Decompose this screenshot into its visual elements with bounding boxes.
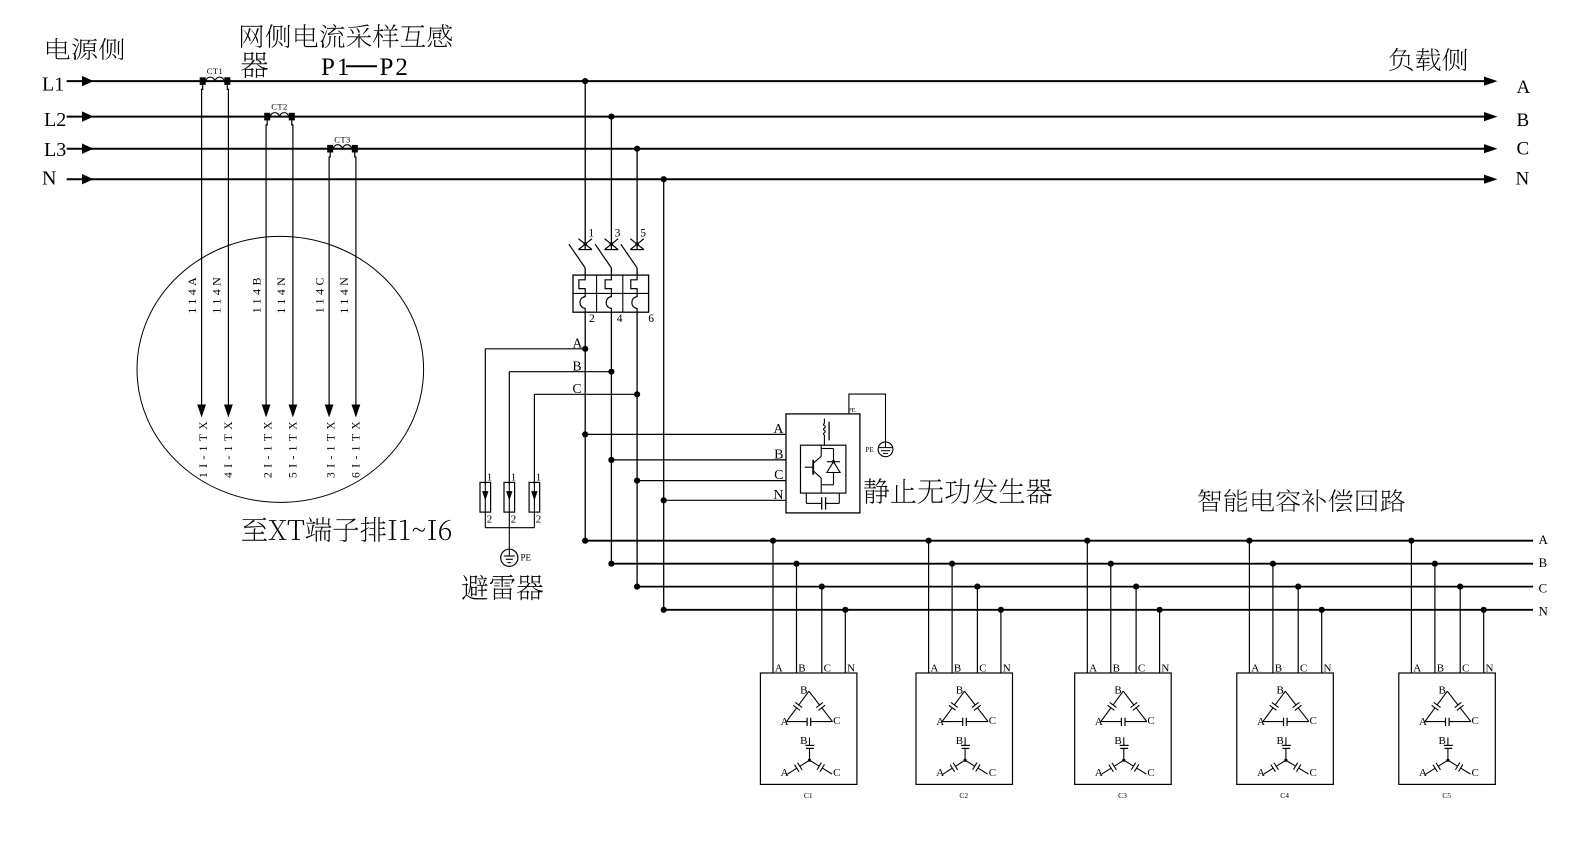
svg-text:B: B [774,448,783,463]
wire C1 B [796,564,798,673]
svg-text:B: B [1539,555,1548,570]
svg-text:C: C [1472,715,1479,727]
junction N on main line [661,176,667,182]
breaker contact 3 [605,239,619,250]
svg-text:B: B [1114,685,1121,697]
svg-text:C: C [1310,767,1317,779]
freewheel diode [833,449,835,462]
svg-text:2: 2 [589,313,595,325]
text: jingzhi wugong fashengqi [864,478,1052,504]
delta capacitors C3 [1101,708,1111,722]
svg-text:C: C [1310,715,1317,727]
junction C1 N [842,607,848,613]
bus B [611,563,1533,565]
svg-text:B: B [800,735,807,747]
magnetic coil pin 4 [606,293,611,312]
junction tap B [608,369,614,375]
thermal element pin 6 [631,275,637,293]
current transformer CT1 [200,77,206,85]
svg-text:A: A [1095,767,1103,779]
wire C1 N [844,610,846,673]
svg-text:C: C [1517,138,1530,159]
wire C3 B [1110,564,1112,673]
junction C5 B [1432,561,1438,567]
svg-text:2: 2 [536,513,542,525]
svg-text:1: 1 [511,471,517,483]
svg-text:C2: C2 [959,791,968,800]
thermal element pin 4 [605,275,611,293]
wire arrester A drop [484,349,486,484]
svg-text:A: A [936,767,944,779]
svg-text:C3: C3 [1118,791,1127,800]
inductor inside SVG [823,419,825,424]
N right arrow [1484,175,1498,184]
wire SVG input N [664,499,786,501]
bus A [585,540,1533,542]
junction tap A [582,346,588,352]
L3 right arrow [1484,144,1498,153]
svg-text:C1: C1 [804,791,813,800]
junction SVG B [608,457,614,463]
svg-text:B: B [956,735,963,747]
wire CT secondary B411 [266,120,267,404]
wire SVG input A [585,433,786,435]
svg-text:PE: PE [521,553,532,563]
svg-text:A: A [781,716,789,728]
junction SVG C [634,478,640,484]
junction C3 B [1108,561,1114,567]
svg-text:N: N [42,168,56,190]
junction C3 C [1133,584,1139,590]
svg-text:L2: L2 [44,109,66,131]
wire CT secondary N411 [355,153,356,405]
node circle: CT secondary bundle [137,236,424,502]
delta capacitors C1 [787,708,797,722]
wire C3 C [1135,587,1137,673]
wire SVG input C [637,480,786,482]
IGBT transistor [812,460,814,475]
svg-text:C: C [1472,767,1479,779]
arrow B411 [262,405,271,418]
svg-text:A: A [1539,532,1549,547]
wire to PE [508,528,510,550]
breaker contact 1 [578,239,592,250]
svg-text:2: 2 [487,513,493,525]
arrester common wire [485,527,534,529]
svg-text:B: B [1277,685,1284,697]
junction pole 3 on main line [608,114,614,120]
bus N [664,609,1533,611]
svg-text:5: 5 [640,228,646,240]
arrester element FC [529,482,540,512]
junction SVG A [582,431,588,437]
thermal element pin 2 [579,275,585,293]
svg-text:6: 6 [648,313,654,325]
wire phase C vertical [636,312,638,586]
junction bus A start [582,538,588,544]
svg-text:N: N [773,488,783,503]
svg-text:4: 4 [617,313,623,325]
magnetic coil pin 2 [580,293,585,312]
PE ground symbol (arrester) [501,549,518,566]
junction bus C start [634,584,640,590]
junction bus N start [661,607,667,613]
DC capacitor inside SVG [805,493,807,503]
junction C1 C [819,584,825,590]
contact pivot 3 [610,242,613,245]
svg-text:4I-1TX: 4I-1TX [223,417,235,478]
svg-text:L1: L1 [42,74,64,96]
breaker blade 5 [621,244,637,268]
svg-text:114C: 114C [312,274,326,313]
svg-text:PE: PE [848,407,856,414]
wire neutral vertical [663,179,665,610]
svg-text:1I-1TX: 1I-1TX [198,417,210,478]
text: qi [241,52,268,78]
N left arrow [82,174,94,184]
svg-text:C5: C5 [1442,791,1451,800]
breaker thermal-magnetic box [573,275,649,312]
wire phase B vertical [610,312,612,564]
arrow N411 [224,405,233,418]
arrow A411 [197,405,206,418]
L3 left arrow [82,144,94,154]
wire pole 3 drop [610,117,612,250]
box C1 [760,673,857,784]
wire pole 1 drop [584,81,586,250]
wye capacitors C2 [964,737,966,745]
text: fuzaice 负载侧 [1389,48,1467,71]
svg-text:B: B [956,685,963,697]
wire C4 C [1297,587,1299,673]
svg-text:B: B [1517,110,1530,131]
svg-text:5I-1TX: 5I-1TX [287,417,299,478]
junction C2 A [926,538,932,544]
box C5 [1399,673,1496,784]
svg-text:114N: 114N [337,274,351,314]
arrow N411 [289,405,298,418]
svg-text:PE: PE [866,446,874,454]
wire tap C to arrester [534,393,637,395]
junction C5 A [1408,538,1414,544]
svg-text:114A: 114A [185,274,199,314]
junction C4 B [1270,561,1276,567]
junction C4 A [1246,538,1252,544]
wire tap B to arrester [509,371,611,373]
svg-text:114B: 114B [249,274,263,313]
breaker blade 3 [595,244,611,268]
wire SVG input B [611,459,786,461]
junction C2 N [998,607,1004,613]
wire C5 C [1459,587,1461,673]
bus C [637,586,1533,588]
delta capacitors C5 [1425,708,1435,722]
text: zhi XT duanzipai [242,517,451,542]
PE ground symbol (SVG) [878,442,893,457]
wire C2 B [951,564,953,673]
wye capacitors C3 [1123,737,1125,745]
wire CT secondary N411 [292,120,293,404]
svg-text:B: B [573,359,582,374]
svg-text:1: 1 [588,228,594,240]
junction C3 N [1157,607,1163,613]
svg-text:A: A [773,422,784,437]
svg-text:L3: L3 [44,139,66,161]
wire C3 A [1086,541,1088,673]
wire C5 N [1483,610,1485,673]
arrow N411 [352,405,361,418]
contact pivot 5 [635,242,638,245]
L1 right arrow [1484,77,1498,86]
svg-text:3: 3 [615,228,621,240]
wire C2 A [928,541,930,673]
svg-text:B: B [1439,685,1446,697]
svg-text:1: 1 [536,471,542,483]
IGBT top rail [821,448,833,450]
svg-text:6I-1TX: 6I-1TX [350,417,362,478]
svg-text:CT3: CT3 [334,135,351,145]
svg-text:P2: P2 [380,54,410,81]
text: bileiqi 避雷器 [462,575,543,601]
svg-text:C: C [989,715,996,727]
delta capacitors C2 [942,708,952,722]
diode junction dot [832,460,836,464]
svg-text:2: 2 [511,513,517,525]
wire L2 main horizontal line [67,116,1485,118]
svg-text:B: B [800,685,807,697]
wye capacitors C5 [1447,737,1449,745]
current transformer CT2 [264,113,270,121]
wire tap A to arrester [485,348,585,350]
IGBT bottom rail [821,484,833,486]
box C3 [1075,673,1172,784]
svg-text:114N: 114N [274,274,288,314]
junction C2 C [974,584,980,590]
junction tap C [634,391,640,397]
text: zhineng dianrong buchang huilu [1198,489,1405,512]
wire C2 N [1000,610,1002,673]
static var generator box U1 [786,414,860,513]
wire pole 5 drop [636,149,638,250]
wire L3 main horizontal line [67,148,1485,150]
svg-text:C: C [573,381,582,396]
wire C5 B [1434,564,1436,673]
svg-text:C: C [833,767,840,779]
arrester element FB [504,482,515,512]
svg-text:3I-1TX: 3I-1TX [326,417,338,478]
magnetic coil pin 6 [632,293,637,312]
L2 left arrow [82,111,94,121]
svg-text:114N: 114N [210,274,224,314]
wire L1 main horizontal line [67,80,1485,82]
svg-text:A: A [1419,716,1427,728]
L1 left arrow [82,76,94,86]
wire C2 C [976,587,978,673]
svg-text:C: C [1147,767,1154,779]
junction pole 5 on main line [634,146,640,152]
svg-text:C: C [989,767,996,779]
junction SVG N [661,497,667,503]
wire C1 A [772,541,774,673]
box C2 [916,673,1013,784]
junction C4 C [1295,584,1301,590]
svg-text:C: C [774,468,783,483]
svg-text:A: A [1257,716,1265,728]
svg-text:CT2: CT2 [271,102,288,112]
delta capacitors C4 [1263,708,1273,722]
IGBT module box [801,445,846,493]
wire N main horizontal line [67,178,1485,180]
svg-text:CT1: CT1 [207,66,224,76]
wire C4 A [1248,541,1250,673]
PE wire from SVG box [849,394,886,442]
current transformer CT3 [327,145,333,153]
svg-text:A: A [1257,767,1265,779]
wire C4 N [1321,610,1323,673]
svg-text:C: C [1539,581,1548,596]
inductor core bar [828,422,830,441]
text: dianyuance 电源侧 [47,38,124,60]
wye capacitors C1 [809,737,811,745]
arrester element FA [480,482,491,512]
svg-text:C4: C4 [1280,791,1289,800]
junction C2 B [949,561,955,567]
breaker contact 5 [630,239,644,250]
junction pole 1 on main line [582,78,588,84]
wire arrester B drop [508,372,510,484]
wire phase A vertical [584,312,586,541]
wire arrester C drop [533,394,535,484]
svg-text:A: A [1095,716,1103,728]
svg-text:C: C [833,715,840,727]
wire C3 N [1159,610,1161,673]
text: wangce line1 [241,24,452,48]
svg-text:A: A [936,716,944,728]
junction C3 A [1084,538,1090,544]
junction bus B start [608,561,614,567]
svg-text:C: C [1147,715,1154,727]
svg-text:1: 1 [487,471,493,483]
svg-text:A: A [573,336,583,351]
svg-text:N: N [1539,604,1549,619]
wire C4 B [1272,564,1274,673]
wire C5 A [1410,541,1412,673]
svg-text:B: B [1439,735,1446,747]
svg-text:B: B [1114,735,1121,747]
wire CT secondary C411 [329,153,330,405]
svg-text:B: B [1277,735,1284,747]
junction C1 B [793,561,799,567]
junction C4 N [1319,607,1325,613]
L2 right arrow [1484,112,1498,121]
junction C1 A [770,538,776,544]
svg-text:N: N [1516,168,1530,189]
wire CT secondary A411 [202,85,203,405]
wye capacitors C4 [1285,737,1287,745]
box C4 [1237,673,1334,784]
svg-text:A: A [1517,77,1531,98]
wire C1 C [821,587,823,673]
junction C5 C [1457,584,1463,590]
breaker blade 1 [569,244,585,268]
svg-text:A: A [1419,767,1427,779]
svg-text:A: A [781,767,789,779]
arrow C411 [325,405,334,418]
junction C5 N [1481,607,1487,613]
wire CT secondary N411 [227,85,228,405]
contact pivot 1 [584,242,587,245]
svg-text:2I-1TX: 2I-1TX [263,417,275,478]
